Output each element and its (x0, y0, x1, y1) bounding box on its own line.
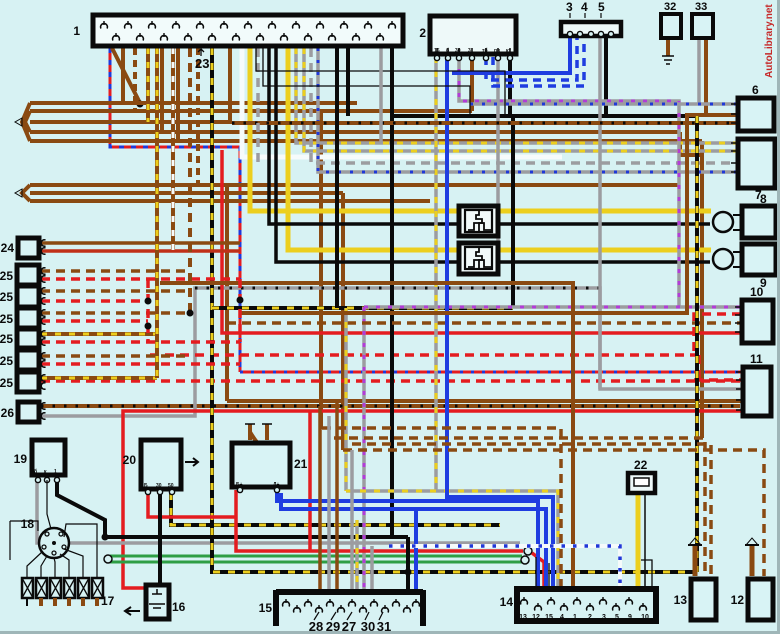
block 22 (628, 458, 655, 493)
25-1 wires (41, 271, 240, 279)
svg-text:3: 3 (566, 0, 573, 14)
vertical brown x227 to y401 (225, 185, 229, 401)
watermark (764, 4, 775, 78)
wire brown diagonal from unit1 (112, 48, 144, 108)
svg-text:32: 32 (664, 1, 676, 13)
svg-text:9: 9 (628, 614, 632, 621)
brown-black dotted y123 to block6 (232, 121, 736, 125)
connector block 3-4-5 (561, 0, 621, 37)
svg-text:24: 24 (1, 241, 15, 255)
svg-text:10: 10 (750, 285, 764, 299)
brown from 33 to block6 (706, 38, 736, 115)
svg-text:25: 25 (0, 376, 13, 390)
brown dashed to block10 t3 y323 (227, 321, 741, 325)
svg-text:26: 26 (1, 406, 15, 420)
svg-text:3: 3 (468, 48, 471, 54)
relay box lower (459, 243, 498, 274)
black-yellow dashed y308 (212, 306, 513, 310)
svg-text:25: 25 (0, 354, 13, 368)
gray-purple dashed y307 to block10 (364, 305, 741, 309)
brown right x687 (240, 115, 736, 313)
svg-text:50: 50 (168, 483, 174, 489)
blue pair from block21 (277, 490, 546, 588)
svg-text:10: 10 (641, 614, 649, 621)
block 26 (1, 402, 39, 422)
wire red-blue dashed from unit1 left (110, 48, 240, 372)
red from block21 left to 14 (236, 490, 544, 588)
svg-text:5: 5 (598, 0, 605, 14)
svg-text:тб: тб (482, 47, 488, 54)
block 25f (0, 372, 39, 392)
black headlight line y264 (276, 48, 710, 262)
gray dashed line to block7 t3 (311, 48, 736, 163)
24 wires (41, 243, 240, 251)
svg-text:11: 11 (750, 352, 763, 366)
white-blue dotted y546 (389, 546, 620, 588)
block 13 (674, 579, 716, 620)
gray-blue line to block7 t4 (318, 48, 736, 172)
svg-text:22: 22 (634, 458, 648, 472)
gray from 19 y543 (37, 479, 520, 543)
block 24 (1, 238, 39, 258)
brown bundle B to left arrow (15, 185, 680, 201)
svg-text:30: 30 (455, 48, 461, 54)
gray-purple dashed from block2 (459, 57, 679, 307)
black thick from block20 to 16 (158, 493, 162, 584)
svg-text:12: 12 (731, 593, 745, 607)
block 11 (736, 352, 771, 416)
svg-text:15: 15 (259, 601, 273, 615)
yellow vertical x284 to y211 (250, 48, 711, 211)
red solid long y333 to block10 (222, 150, 741, 333)
gray long from 3-4-5 down right (598, 36, 602, 389)
svg-text:3: 3 (602, 614, 606, 621)
red solid y411 from x123 to block11 (123, 411, 741, 588)
svg-text:1: 1 (73, 24, 80, 38)
svg-text:4: 4 (560, 614, 564, 621)
block 10 (735, 285, 773, 343)
svg-text:20: 20 (123, 453, 137, 467)
red dashed verticals left cluster (145, 279, 244, 342)
gray-yellow from block2 t1 down to 14 (346, 57, 558, 588)
block 12 (731, 579, 773, 620)
yellow dashed vertical x157 (155, 48, 159, 378)
svg-text:18: 18 (21, 517, 35, 531)
25-5 wires (41, 356, 240, 364)
svg-text:1: 1 (54, 469, 57, 475)
svg-text:13: 13 (519, 614, 527, 621)
svg-text:Б+: Б+ (236, 482, 243, 488)
brown-black horizontal y406 from block26 (41, 404, 740, 408)
thin stubs from 14 (536, 557, 652, 588)
svg-text:2: 2 (588, 614, 592, 621)
svg-text:14: 14 (500, 595, 514, 609)
svg-text:12: 12 (532, 614, 540, 621)
svg-text:Д+: Д+ (273, 482, 280, 488)
svg-text:1: 1 (573, 614, 577, 621)
block 8 (733, 192, 776, 238)
block 25e (0, 350, 39, 370)
gray from block2 (496, 57, 500, 270)
block 19 (14, 440, 65, 483)
svg-text:17: 17 (101, 594, 115, 608)
svg-text:16: 16 (172, 600, 186, 614)
block 32 (661, 1, 681, 38)
svg-text:5: 5 (615, 614, 619, 621)
distributor 18 (21, 517, 69, 558)
spark plug boxes 17 (22, 578, 115, 615)
brown bundle A to left arrow (15, 103, 702, 438)
brown horizontal y401 to block11 (227, 399, 742, 403)
thin ignition wires (10, 480, 97, 578)
svg-text:23: 23 (195, 56, 209, 71)
headlamp circle 8 (713, 212, 733, 232)
black-yellow dashed vertical x205 and bottom y572 (212, 48, 697, 572)
black vertical x408 from y537 (393, 535, 408, 539)
black dashed right vertical x697 (695, 116, 699, 572)
svg-text:кт: кт (506, 48, 512, 54)
tiny terminal labels (34, 47, 512, 489)
svg-text:25: 25 (0, 290, 13, 304)
block 9 (733, 244, 776, 290)
black vertical from 3-4-5 via y117 down x513 (392, 36, 697, 308)
svg-text:4: 4 (581, 0, 588, 14)
svg-text:б: б (34, 468, 37, 475)
block 25c (0, 308, 39, 328)
extra center verticals (256, 48, 505, 308)
svg-text:Б: Б (144, 483, 148, 489)
red dashed loop at block10/11 (694, 314, 741, 380)
fork arrows above block21 (245, 415, 272, 443)
25-6 wires (41, 376, 157, 380)
connector block 2 (419, 16, 516, 61)
brown from 32 stub (662, 38, 674, 64)
gray-purple vertical x364 to block15 (362, 307, 366, 590)
red dashed y355 (150, 353, 699, 357)
block 20 (123, 440, 198, 495)
black from 19 to y537 (57, 479, 109, 541)
slashes near 15 numbers (314, 612, 383, 620)
block 7 (731, 139, 775, 202)
vertical brown x321 down to dashed (319, 111, 323, 429)
gray from 33 (697, 38, 701, 104)
svg-text:6: 6 (752, 83, 759, 97)
block 33 (692, 1, 713, 38)
brown dashed vertical x190 (187, 48, 194, 317)
svg-text:19: 19 (14, 452, 28, 466)
svg-text:21: 21 (294, 457, 308, 471)
block 15 connector (259, 590, 423, 634)
svg-text:33: 33 (695, 1, 707, 13)
block 14 connector (500, 589, 656, 621)
brown from block2 t4 (470, 57, 474, 111)
black headlight line y222 (269, 48, 710, 224)
gray-blue dotted y104 to block6 (470, 102, 736, 106)
wire red-blue dotted to block 11 (240, 371, 742, 374)
svg-text:8: 8 (760, 192, 767, 206)
brown dashed pair down to 13 (322, 428, 561, 588)
red from block20 elbow (148, 493, 236, 517)
left block stubs (41, 240, 45, 419)
block 25a (0, 265, 39, 285)
blue solid U to 3-4-5 (452, 36, 570, 73)
block 25d (0, 329, 39, 348)
svg-text:25: 25 (0, 332, 13, 346)
block 6 (731, 83, 774, 131)
25-4 wires (41, 334, 240, 342)
red vertical x310 (308, 411, 312, 551)
wires into block 15 (320, 401, 412, 590)
svg-text:б: б (446, 47, 449, 54)
black long vertical x392 (105, 48, 392, 537)
block 25b (0, 286, 39, 307)
svg-text:AutoLibrary.net: AutoLibrary.net (764, 4, 775, 78)
white dashed vertical x173 (171, 48, 175, 250)
connector block 1 (73, 15, 403, 71)
block1 stub wires (123, 48, 381, 185)
yellow and black from 22 to 14 (638, 492, 645, 587)
svg-text:25: 25 (0, 312, 13, 326)
relay box upper (459, 206, 498, 236)
svg-text:13: 13 (674, 593, 688, 607)
block 16 (125, 585, 186, 619)
svg-text:2: 2 (419, 26, 426, 40)
25-2 wires (41, 291, 190, 301)
svg-text:пв: пв (494, 48, 500, 54)
svg-text:30: 30 (156, 483, 162, 489)
svg-text:15: 15 (545, 614, 553, 621)
gray path from block26 up and right to block 11 (41, 288, 742, 416)
blue vertical into 15 (414, 509, 418, 590)
blue dashed U1 (486, 36, 577, 80)
white wire from unit1 (242, 48, 562, 157)
svg-text:15: 15 (434, 48, 440, 54)
blue dashed U2 (493, 36, 584, 86)
gray-yellow line to block7 t2 (304, 48, 736, 151)
blue long from block2 t2 to 14 (447, 57, 553, 588)
25-3 wires (41, 313, 190, 321)
block 21 (232, 443, 308, 493)
black-yellow dashed y525 from block20 (171, 493, 500, 525)
svg-text:25: 25 (0, 269, 13, 283)
brown stub to 12 (745, 538, 759, 576)
vertical brown x343 (341, 193, 345, 450)
gray-yellow line to block7 t1 (296, 48, 736, 143)
red dashed long y381 (41, 379, 741, 383)
yellow vertical x266 to y250 (288, 48, 711, 250)
headlamp circle 9 (713, 249, 733, 269)
brown center tall x578 to 14 (160, 283, 573, 588)
green double line (104, 555, 529, 564)
brown stub to 13 (688, 538, 702, 576)
